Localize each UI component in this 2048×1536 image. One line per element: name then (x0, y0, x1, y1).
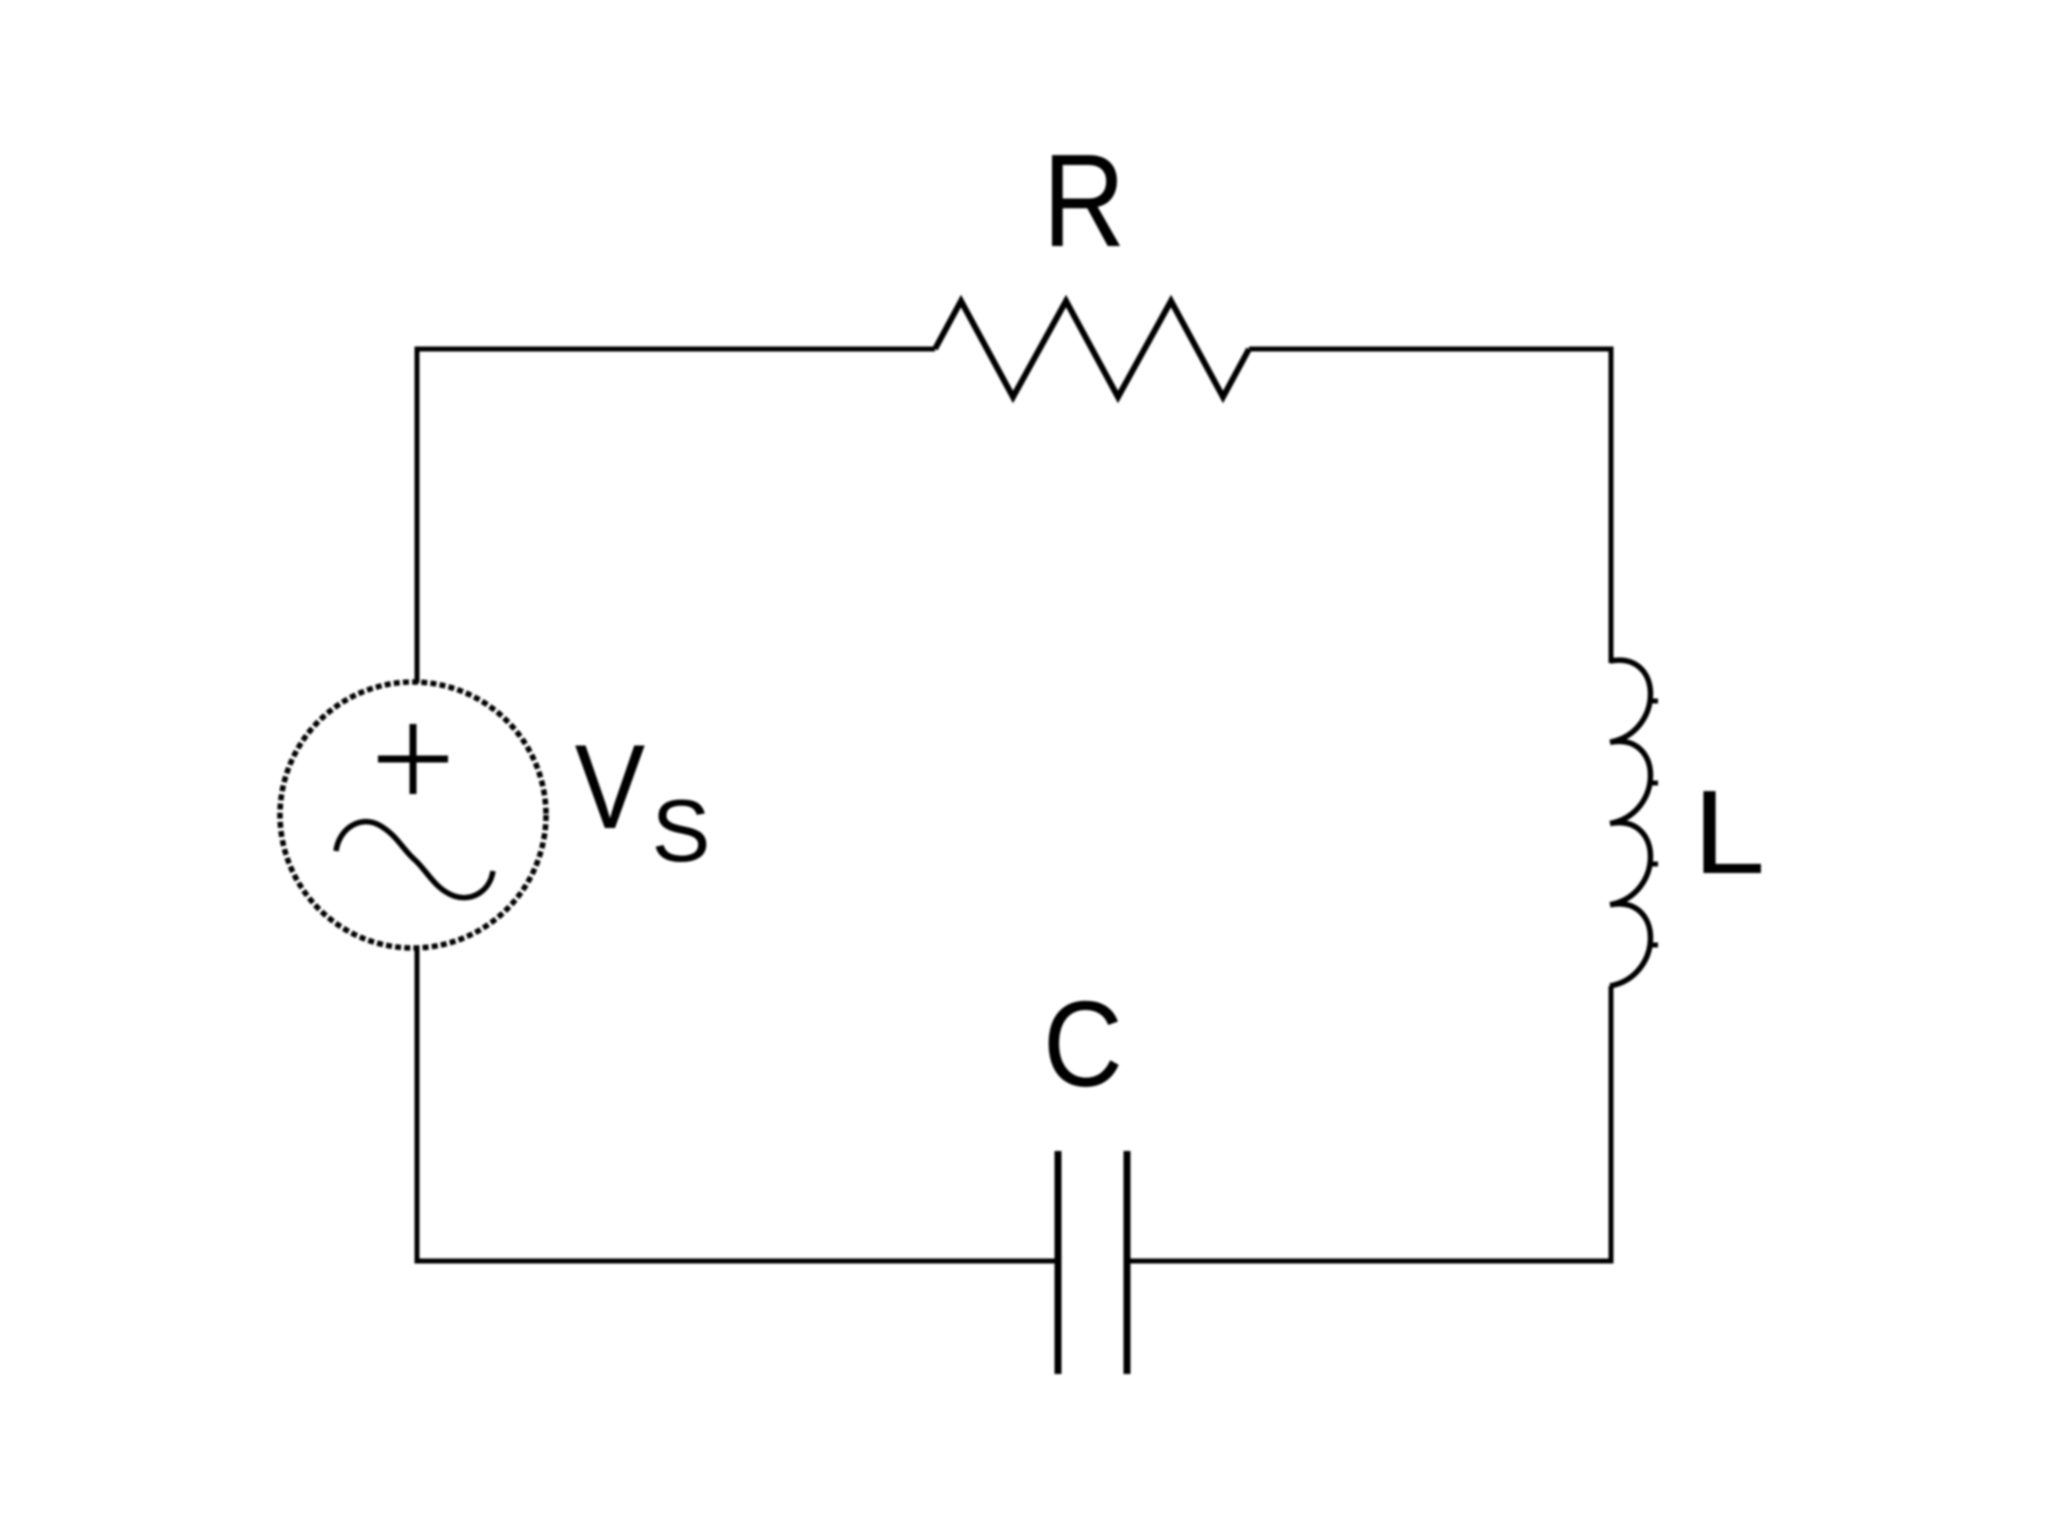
svg-text:C: C (1043, 976, 1123, 1112)
voltage source VS circle (280, 682, 546, 948)
resistor R (935, 301, 1249, 397)
capacitor C plate left (1055, 1151, 1062, 1374)
inductor tick 2 (1648, 781, 1658, 786)
svg-text:L: L (1693, 766, 1766, 898)
wire bottom-left horizontal segment (417, 1259, 1058, 1264)
wire right upper vertical segment (1609, 347, 1614, 664)
svg-text:V: V (575, 720, 645, 854)
wire right lower vertical segment (1609, 986, 1614, 1264)
wire left upper vertical segment (415, 347, 420, 684)
inductor tick 3 (1648, 862, 1658, 867)
wire top-left horizontal segment (417, 347, 935, 352)
wire top-right horizontal segment (1249, 347, 1611, 352)
svg-text:S: S (652, 781, 711, 880)
capacitor C plate right (1124, 1151, 1131, 1374)
wire bottom-right horizontal segment (1127, 1259, 1611, 1264)
inductor tick 1 (1648, 699, 1658, 704)
wire left lower vertical segment (415, 946, 420, 1264)
svg-text:R: R (1043, 127, 1126, 274)
inductor L (1610, 660, 1651, 986)
inductor tick 4 (1648, 943, 1658, 948)
voltage source sine wave (336, 822, 493, 898)
voltage source plus sign (378, 724, 448, 794)
